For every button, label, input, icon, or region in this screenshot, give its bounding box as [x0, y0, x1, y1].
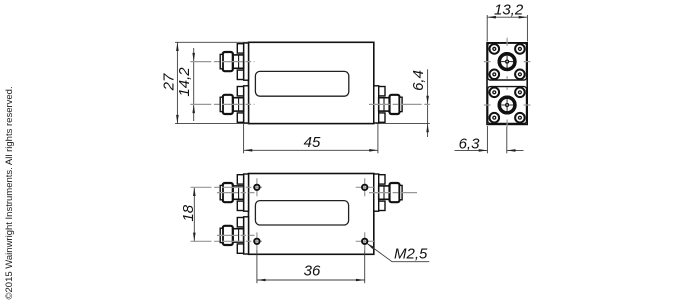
dim 27 extension top — [175, 41, 249, 43]
dim 36 arrow right — [356, 279, 365, 282]
svg-text:13,2: 13,2 — [494, 2, 524, 19]
port2 screw bottom — [237, 113, 243, 122]
svg-text:6,4: 6,4 — [410, 70, 427, 91]
end view crosshair port1 ticks — [484, 61, 491, 63]
port3b nut — [390, 183, 400, 202]
dim 45 extension left — [243, 124, 245, 154]
mounting hole BR — [362, 239, 367, 244]
flange1 screw BR — [515, 70, 525, 80]
dim 6,3 extension left — [486, 126, 488, 153]
port3b cap — [400, 185, 403, 199]
port2 screw top — [237, 87, 243, 96]
port1 step — [233, 55, 244, 68]
port2 cap — [220, 97, 223, 111]
port1 flange — [244, 43, 249, 80]
port1b screw bottom — [237, 201, 243, 210]
port3 screw top — [379, 87, 385, 96]
port3b screw top — [379, 175, 385, 184]
port1 connector ring — [499, 54, 515, 70]
dim 6,4 line — [427, 69, 429, 137]
dim 27 line — [176, 42, 178, 123]
dim 18 line — [193, 187, 195, 241]
hole crosshair v BL — [256, 232, 258, 250]
port2b nut — [223, 226, 233, 245]
dim 18 arrow top — [193, 187, 196, 196]
centerline port 3 — [369, 103, 430, 105]
flange1 screw TR — [515, 44, 525, 54]
dim 13,2 arrow left — [487, 16, 496, 19]
dim 6,3 arrow right — [507, 149, 516, 152]
body V1 — [249, 42, 374, 123]
dim 6,3 line right — [507, 149, 524, 151]
mounting hole BR redraw — [362, 239, 367, 244]
port3 step — [379, 98, 390, 111]
port2 connector ring — [499, 97, 515, 113]
port3b flange — [374, 174, 379, 211]
end view crosshair port2 ticks — [484, 104, 491, 106]
dim 6,3 arrow left — [479, 149, 488, 152]
dim 6,4 arrow bottom — [426, 124, 429, 133]
port3 flange — [374, 86, 379, 123]
port2 flange — [244, 86, 249, 123]
label recess V1 — [255, 71, 348, 96]
end flange 1 — [488, 43, 527, 80]
end view vertical centerline ticks — [506, 38, 508, 46]
dim 45 arrow left — [244, 149, 253, 152]
dim 36 arrow left — [257, 279, 266, 282]
dim 14,2 arrow top — [192, 53, 195, 62]
port1b cap — [220, 185, 223, 199]
dim 13,2 line — [487, 16, 527, 18]
mounting hole BL — [254, 239, 259, 244]
port2b step — [233, 229, 244, 242]
svg-text:18: 18 — [180, 204, 197, 221]
port1b nut — [223, 183, 233, 202]
port3b screw bottom — [379, 201, 385, 210]
port2b screw top — [237, 218, 243, 227]
dim 13,2 arrow right — [519, 16, 528, 19]
leader M2,5 — [367, 243, 430, 262]
port2b flange — [244, 217, 249, 254]
port2 connector ring redraw — [499, 97, 515, 113]
svg-text:36: 36 — [304, 263, 321, 280]
port1 connector ring redraw — [499, 54, 515, 70]
port1b screw top — [237, 175, 243, 184]
port3 cap — [400, 97, 403, 111]
dim 45 line — [244, 149, 378, 151]
dim 6,3 line left — [455, 149, 488, 151]
dim 45 arrow right — [369, 149, 378, 152]
end flange 2 — [488, 87, 527, 124]
dim 36 line — [257, 279, 365, 281]
flange1 screw TL — [490, 44, 500, 54]
dim 14,2 arrow bottom — [192, 104, 195, 113]
port1b flange — [244, 174, 249, 211]
centerline port 2 — [190, 103, 254, 105]
mounting hole TL redraw — [254, 185, 259, 190]
centerline port 1 — [190, 61, 254, 63]
body V3 — [249, 174, 374, 255]
flange1 screw BL — [490, 70, 500, 80]
hole crosshair h TR — [356, 186, 374, 188]
mounting hole TR — [362, 185, 367, 190]
dim 18 arrow bottom — [193, 233, 196, 242]
label recess V3 — [255, 201, 348, 225]
flange2 screw BR — [515, 113, 525, 123]
dim 27 extension bottom — [175, 123, 249, 125]
hole row2 extension line — [191, 240, 263, 242]
flange2 screw TL — [490, 88, 500, 98]
dim 27 arrow bottom — [176, 115, 179, 124]
dim 6,4 arrow top — [426, 96, 429, 105]
hole crosshair h BR — [356, 240, 374, 242]
dim 14,2 line — [193, 48, 195, 121]
port1 screw bottom — [237, 70, 243, 79]
port3b step — [379, 186, 390, 199]
svg-text:M2,5: M2,5 — [394, 245, 428, 262]
dim 27 arrow top — [176, 42, 179, 51]
svg-text:6,3: 6,3 — [459, 136, 481, 153]
svg-text:©2015 Wainwright Instruments.: ©2015 Wainwright Instruments. All rights… — [4, 86, 15, 299]
port1b step — [233, 186, 244, 199]
port2b screw bottom — [237, 244, 243, 253]
dim 36 extension left — [256, 245, 258, 283]
end view body — [487, 43, 527, 125]
mounting hole TL — [254, 185, 259, 190]
copyright text — [4, 86, 15, 299]
hole row1 extension line — [191, 186, 263, 188]
flange2 screw TR — [515, 88, 525, 98]
svg-text:45: 45 — [304, 134, 321, 151]
dim 6,3 extension center — [506, 126, 508, 153]
mounting hole BL redraw — [254, 239, 259, 244]
hole crosshair v BR — [364, 232, 366, 250]
centerline port 3 bottom — [369, 192, 417, 194]
hole crosshair v TR — [364, 178, 366, 196]
hole crosshair v TL — [256, 178, 258, 196]
port1 screw top — [237, 44, 243, 53]
flange2 screw BL — [490, 113, 500, 123]
dim 13,2 extension left — [486, 15, 488, 42]
dim 36 extension right — [364, 245, 366, 283]
port3 screw bottom — [379, 113, 385, 122]
dim 13,2 extension right — [526, 15, 528, 42]
mounting hole TR redraw — [362, 185, 367, 190]
port2 step — [233, 98, 244, 111]
centerline port 1 bottom — [217, 192, 255, 194]
dim 45 extension right — [377, 124, 379, 154]
port1 nut — [223, 52, 233, 71]
port2b cap — [220, 228, 223, 242]
port3 nut — [390, 95, 400, 114]
centerline port 2 bottom — [217, 234, 255, 236]
port1 cap — [220, 54, 223, 68]
port2 nut — [223, 95, 233, 114]
dim 6,4 extension bottom — [376, 123, 430, 125]
svg-text:14,2: 14,2 — [176, 67, 193, 97]
